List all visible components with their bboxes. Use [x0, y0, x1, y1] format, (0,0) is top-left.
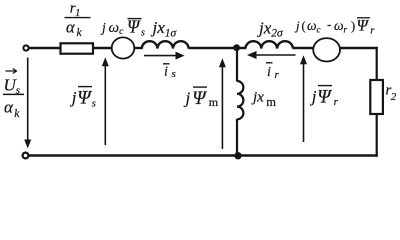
svg-text:jx: jx	[251, 90, 264, 106]
svg-text:k: k	[77, 27, 83, 39]
terminal T2 (bottom-left input)	[23, 153, 29, 159]
svg-text:r: r	[275, 69, 280, 81]
svg-text:2: 2	[391, 91, 397, 103]
svg-text:j: j	[184, 88, 191, 107]
label R2 value: r2	[386, 83, 397, 104]
svg-text:): )	[351, 19, 355, 33]
svg-text:s: s	[92, 99, 96, 110]
svg-text:Ψ: Ψ	[357, 18, 370, 35]
svg-text:r: r	[334, 96, 339, 108]
inductor Lm (magnetizing reactance, vertical)	[237, 81, 243, 119]
source U1 (stator EMF source circle)	[112, 37, 135, 58]
svg-text:Ψ: Ψ	[77, 87, 92, 108]
flux arrow jPsi_s (up arrow)	[102, 57, 109, 145]
wire right: corner down to R2	[376, 47, 378, 81]
svg-text:k: k	[14, 108, 20, 120]
svg-text:-: -	[327, 17, 331, 32]
source U2 (rotor EMF source circle)	[313, 38, 340, 61]
label i_s (i bar, subscript s)	[163, 64, 176, 80]
svg-text:s: s	[172, 68, 176, 80]
svg-text:(: (	[302, 19, 306, 33]
resistor R1 (stator resistance)	[61, 43, 94, 53]
svg-text:α: α	[4, 98, 14, 117]
wire bottom	[29, 154, 378, 157]
svg-text:j: j	[310, 87, 317, 106]
label U2 value: j(omega_c - omega_r)Psi_r (bar over Psi)	[294, 17, 375, 37]
label jPsi_r (bar over Psi)	[310, 86, 339, 108]
label jPsi_m (bar over Psi)	[184, 87, 219, 109]
svg-text:Ψ: Ψ	[317, 86, 332, 107]
label i_r (i bar, subscript r)	[266, 63, 280, 81]
svg-text:j: j	[70, 88, 77, 107]
label U1 value: j omega_c Psi_s (bar over Psi)	[100, 16, 145, 38]
wire top: U2 to top-right corner	[340, 47, 378, 49]
terminal T1 (top-left input)	[23, 45, 28, 50]
voltage arrow Us (down arrow at left)	[24, 58, 31, 149]
node B (bottom junction dot)	[234, 152, 241, 159]
label jPsi_s (bar over Psi)	[70, 87, 96, 110]
current arrow i_s (pointing right)	[144, 52, 185, 60]
svg-text:α: α	[66, 17, 75, 36]
wire middle branch lower (Lm down to node B)	[236, 119, 238, 157]
resistor R2 (rotor resistance)	[370, 80, 383, 114]
svg-text:i: i	[267, 65, 271, 80]
node A (top junction dot)	[233, 44, 240, 51]
svg-text:m: m	[209, 95, 219, 109]
svg-text:s: s	[141, 27, 145, 38]
label R1 value: fraction r1 / alpha_k	[65, 1, 91, 40]
inductor L1 (stator leakage)	[142, 41, 189, 48]
svg-text:i: i	[164, 65, 168, 80]
wire top: L2 to U2	[293, 47, 314, 49]
current arrow i_r (pointing left)	[247, 51, 296, 59]
flux arrow jPsi_m (up arrow)	[219, 58, 226, 149]
wire top: R1 to U1	[93, 47, 112, 49]
svg-text:m: m	[266, 95, 276, 109]
label Lm value: jx_m	[251, 90, 276, 109]
inductor L2 (rotor leakage)	[246, 41, 293, 48]
wire top: U1 to L1	[134, 47, 142, 49]
label Us fraction: U_s (vector) over alpha_k	[3, 69, 24, 120]
wire top: T1 to R1	[30, 47, 61, 49]
wire right: R2 down to bottom corner	[376, 114, 378, 157]
svg-text:Ψ: Ψ	[192, 88, 207, 109]
flux arrow jPsi_r (up arrow)	[300, 55, 307, 142]
wire top: L1 to node A	[189, 47, 246, 49]
wire middle branch upper (node A down to Lm)	[236, 47, 238, 82]
